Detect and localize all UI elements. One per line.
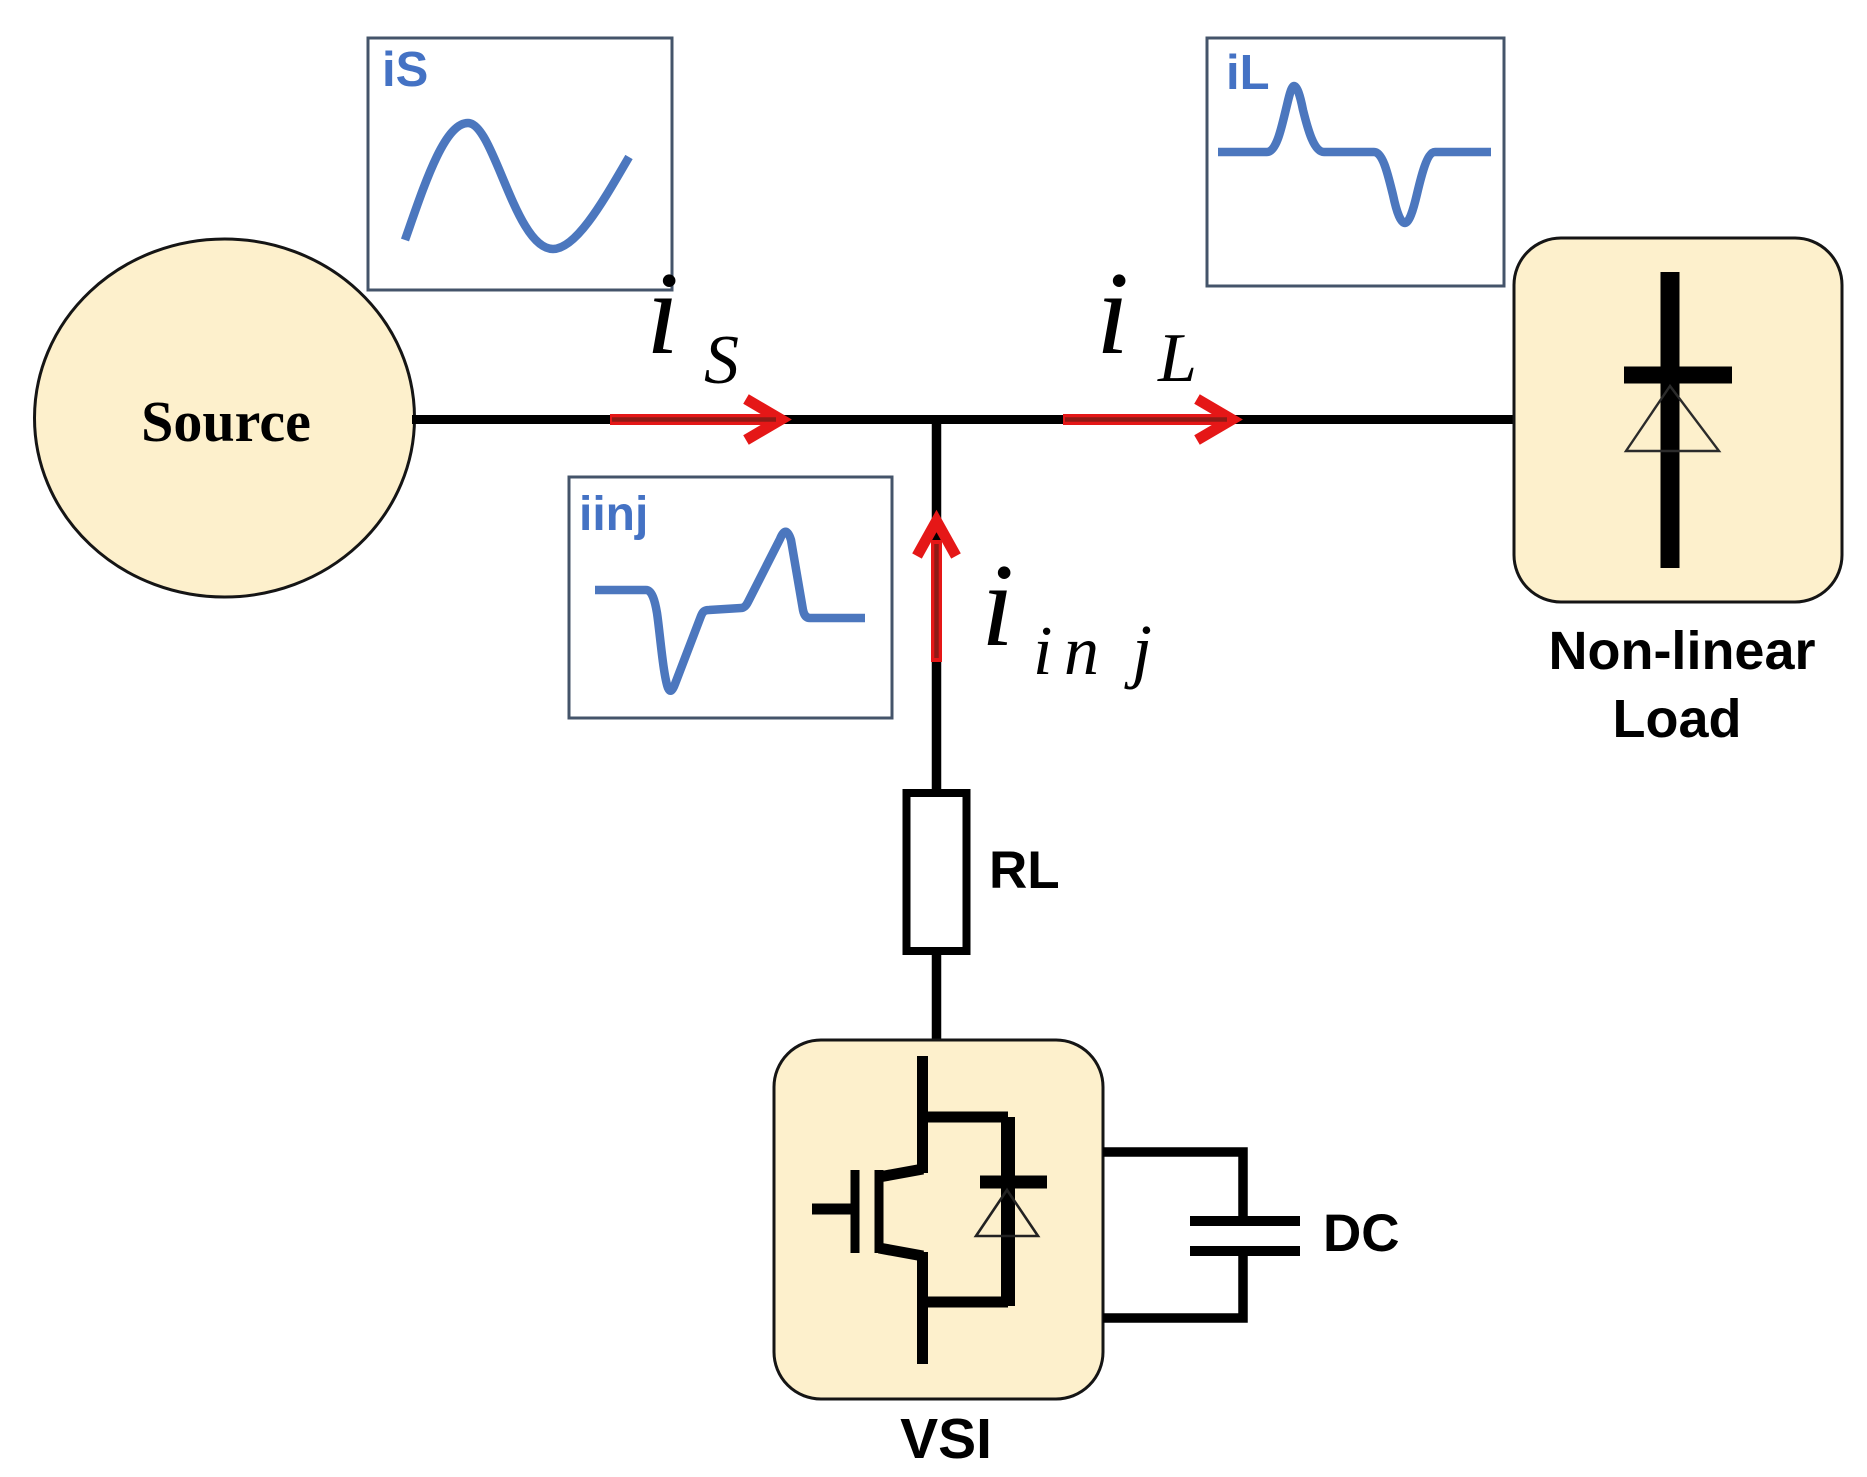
current label iinj	[981, 539, 1152, 690]
svg-text:n: n	[1064, 613, 1099, 690]
current label iL	[1096, 247, 1197, 397]
svg-text:i: i	[1033, 613, 1052, 690]
current label iS	[646, 247, 739, 399]
svg-text:VSI: VSI	[900, 1407, 992, 1471]
rectifier diode D2 triangle	[1626, 386, 1719, 451]
scope box iL	[1207, 38, 1504, 286]
waveform trace iinj (injected current)	[595, 532, 865, 691]
svg-text:iS: iS	[382, 43, 428, 97]
wire: Q1 collector to D1 cathode	[918, 1112, 1008, 1123]
wire: VSI + terminal to DC link capacitor	[1103, 1152, 1243, 1221]
wire: Q1 emitter to D1 anode	[922, 1297, 1008, 1308]
VSI converter box	[774, 1040, 1103, 1399]
wire: RL to VSI	[932, 955, 942, 1042]
svg-text:i: i	[646, 247, 679, 379]
rectifier diode D2 lead	[1661, 272, 1680, 568]
capacitor C1 bottom plate	[1190, 1246, 1300, 1256]
wire: main AC bus from Source to Non-linear Load	[412, 415, 1516, 424]
svg-text:Source: Source	[141, 389, 311, 454]
wire: VSI - terminal to DC link capacitor	[1103, 1251, 1243, 1318]
waveform trace iS (sinusoid)	[405, 123, 629, 249]
IGBT Q1 body bar	[875, 1170, 884, 1253]
scope box iinj	[569, 477, 892, 718]
svg-text:L: L	[1157, 320, 1197, 397]
svg-text:S: S	[704, 322, 739, 399]
waveform trace iL (distorted load current)	[1218, 86, 1491, 223]
non-linear load box	[1514, 238, 1842, 602]
freewheel diode D1 cathode bar	[980, 1176, 1047, 1189]
IGBT Q1 collector lead	[917, 1056, 928, 1173]
capacitor C1 top plate	[1190, 1216, 1300, 1226]
svg-text:i: i	[1096, 247, 1129, 379]
IGBT Q1 gate lead	[812, 1204, 851, 1215]
svg-text:Non-linear: Non-linear	[1548, 621, 1815, 681]
IGBT Q1 gate plate	[851, 1170, 860, 1253]
freewheel diode D1 lead	[1001, 1117, 1015, 1306]
svg-text:RL: RL	[989, 841, 1060, 900]
source G1 (utility source circle)	[35, 239, 415, 597]
current arrow iL	[1063, 399, 1232, 440]
svg-text:DC: DC	[1323, 1204, 1400, 1263]
IGBT Q1 emitter lead	[917, 1252, 928, 1364]
resistor RL	[907, 793, 967, 951]
svg-text:i: i	[981, 539, 1014, 671]
svg-text:Load: Load	[1613, 689, 1742, 749]
IGBT Q1 emitter angled lead	[879, 1248, 923, 1256]
wire: PCC junction to injection branch (vertical)	[932, 420, 942, 791]
freewheel diode D1 triangle	[976, 1190, 1038, 1236]
scope box iS	[368, 38, 672, 290]
current arrow iinj	[917, 521, 956, 662]
IGBT Q1 collector angled lead	[879, 1169, 923, 1177]
svg-text:iinj: iinj	[579, 488, 648, 541]
svg-text:iL: iL	[1226, 46, 1270, 100]
rectifier diode D2 cathode bar	[1624, 367, 1732, 384]
label Non-linear Load	[1548, 621, 1815, 749]
current arrow iS	[610, 399, 781, 440]
